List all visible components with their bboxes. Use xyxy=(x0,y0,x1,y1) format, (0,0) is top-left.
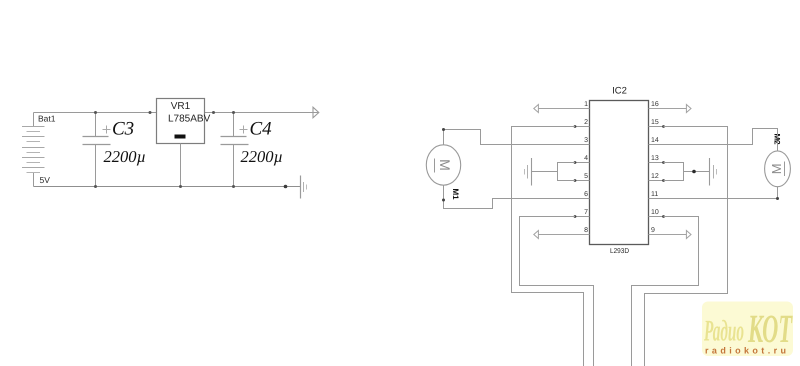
node pin13 dot xyxy=(662,161,665,164)
svg-text:Радио: Радио xyxy=(703,315,744,348)
node C4 bottom rail junction xyxy=(232,185,235,188)
ground (left, pins 4-5) xyxy=(525,158,532,186)
svg-text:14: 14 xyxy=(651,137,659,144)
node pin4 dot xyxy=(574,161,577,164)
label L293D xyxy=(610,248,629,255)
wire M2 top to pin 14 xyxy=(664,129,778,151)
svg-text:5: 5 xyxy=(584,173,588,180)
node pin12 dot xyxy=(662,179,665,182)
pin numbers left xyxy=(584,101,588,234)
node pin5 dot xyxy=(574,179,577,182)
svg-text:2200µ: 2200µ xyxy=(241,147,284,166)
wire M1 top to pin 3 xyxy=(444,130,590,145)
motor M1 xyxy=(426,145,460,185)
node VR1 output pin dot xyxy=(212,111,215,114)
pin 9 wire with arrow xyxy=(649,231,692,239)
label 5V xyxy=(40,175,51,185)
svg-text:M: M xyxy=(437,159,453,171)
value label 2200u (C4) xyxy=(241,147,284,166)
value label 2200u (C3) xyxy=(104,147,147,166)
svg-text:6: 6 xyxy=(584,191,588,198)
watermark Radio text xyxy=(703,315,744,348)
svg-text:2200µ: 2200µ xyxy=(104,147,147,166)
node C4 top rail junction xyxy=(232,111,235,114)
svg-text:5V: 5V xyxy=(40,175,51,185)
wire pins 4-5 bracket to ground xyxy=(532,163,576,181)
svg-text:8: 8 xyxy=(584,227,588,234)
svg-text:Bat1: Bat1 xyxy=(38,114,56,124)
node pin2 dot xyxy=(574,125,577,128)
node M2 top wire dot xyxy=(776,138,779,141)
svg-text:15: 15 xyxy=(651,119,659,126)
C3 plus polarity sign xyxy=(103,126,111,134)
svg-text:12: 12 xyxy=(651,173,659,180)
svg-text:2: 2 xyxy=(584,119,588,126)
ground (power rail, right) xyxy=(301,176,307,199)
node C3 bottom rail junction xyxy=(94,185,97,188)
label VR1 xyxy=(171,101,191,112)
svg-text:L293D: L293D xyxy=(610,248,629,255)
IC U-IC2 box xyxy=(590,101,649,245)
node pin7 dot xyxy=(574,215,577,218)
wire pin15 loop to bottom xyxy=(645,127,728,366)
label M1 (rotated) xyxy=(451,189,460,201)
pin 1 wire with arrow xyxy=(534,105,590,113)
voltage regulator VR1 box xyxy=(157,99,205,144)
svg-text:КОТ: КОТ xyxy=(747,306,792,351)
battery Bat1 xyxy=(22,113,45,187)
svg-text:M: M xyxy=(769,163,784,174)
svg-text:9: 9 xyxy=(651,227,655,234)
svg-text:C3: C3 xyxy=(112,119,134,140)
wire M1 bottom to pin 6 xyxy=(444,185,590,208)
node dot on right ground wire xyxy=(692,170,696,174)
wire pins 13-12 bracket to ground xyxy=(664,163,710,181)
watermark background xyxy=(702,302,793,357)
label C3 xyxy=(112,119,134,140)
pin 16 wire with arrow xyxy=(649,105,692,113)
svg-text:VR1: VR1 xyxy=(171,101,191,112)
wire top rail right (VR1 to output arrow) xyxy=(205,112,319,114)
node M1 top corner dot xyxy=(442,128,445,131)
node C3 top rail junction xyxy=(94,111,97,114)
svg-text:7: 7 xyxy=(584,209,588,216)
svg-text:13: 13 xyxy=(651,155,659,162)
VR1 tab mark xyxy=(175,135,186,139)
svg-text:C4: C4 xyxy=(250,119,273,140)
svg-text:IC2: IC2 xyxy=(612,86,627,97)
label C4 xyxy=(250,119,273,140)
wire pin2 loop to bottom xyxy=(512,127,584,366)
label Bat1 xyxy=(38,114,56,124)
wire bottom rail xyxy=(34,186,301,188)
node M2 bottom dot xyxy=(776,197,779,200)
C4 plus polarity sign xyxy=(240,126,248,134)
pin stubs right (16-9) xyxy=(649,109,664,235)
svg-text:L785ABV: L785ABV xyxy=(168,114,211,125)
label L785ABV xyxy=(168,114,211,125)
wire pin10 loop to bottom xyxy=(632,217,699,366)
node bottom rail ground junction xyxy=(284,185,288,189)
output arrow (right-pointing, open) xyxy=(313,107,319,118)
ground (right, pins 13-12) xyxy=(710,158,717,186)
svg-text:M1: M1 xyxy=(451,189,460,201)
motor M2 xyxy=(765,151,791,187)
pin numbers right xyxy=(651,101,659,234)
svg-text:11: 11 xyxy=(651,191,658,198)
node VR1 ground junction xyxy=(179,185,182,188)
svg-text:16: 16 xyxy=(651,101,659,108)
label IC2 xyxy=(612,86,627,97)
capacitor C3 xyxy=(83,113,111,187)
wire VR1 ground lead xyxy=(180,144,182,187)
svg-text:3: 3 xyxy=(584,137,588,144)
label M2 (rotated) xyxy=(773,134,782,146)
pin stubs left (1-8) xyxy=(575,109,590,235)
svg-text:4: 4 xyxy=(584,155,588,162)
watermark radiokot.ru text xyxy=(705,346,786,356)
pin 8 wire with arrow xyxy=(534,231,590,239)
node M1 bottom dot xyxy=(442,199,445,202)
node pin15 dot xyxy=(662,125,665,128)
svg-text:10: 10 xyxy=(651,209,659,216)
node VR1 input pin dot xyxy=(149,111,152,114)
wire M2 bottom to pin 11 xyxy=(664,187,778,199)
node pin10 dot xyxy=(662,215,665,218)
wire top rail left (battery to VR1) xyxy=(34,112,157,114)
wire pin7 loop to bottom xyxy=(520,217,594,366)
svg-text:1: 1 xyxy=(584,101,588,108)
watermark KOT text xyxy=(747,306,792,351)
capacitor C4 xyxy=(221,113,249,187)
